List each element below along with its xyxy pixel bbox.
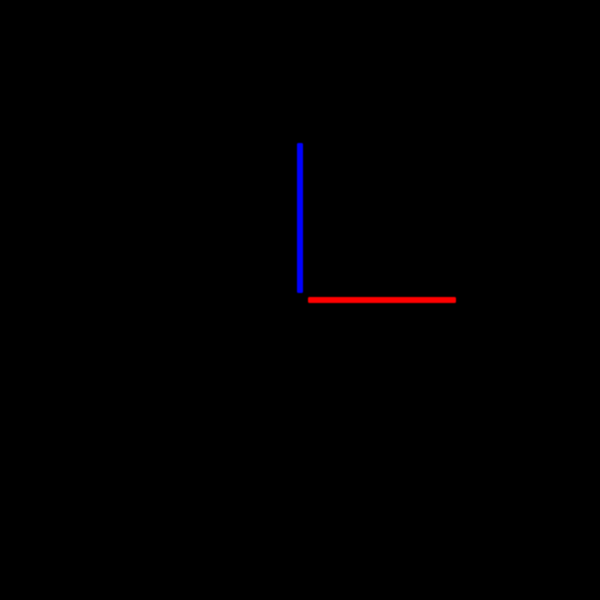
blue vertical line	[297, 143, 303, 293]
red horizontal line	[308, 297, 457, 303]
